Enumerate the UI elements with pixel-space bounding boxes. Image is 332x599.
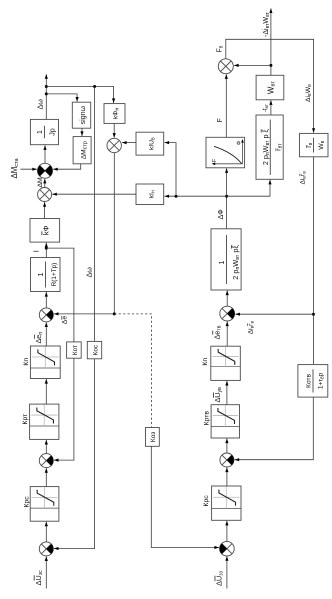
svg-text:kФн: kФн (112, 108, 120, 120)
wire to kIn kIUv (165, 141, 227, 198)
wire dM S4-S5 (43, 179, 46, 188)
svg-text:-ΔiвтWвт: -ΔiвтWвт (263, 11, 271, 37)
svg-text:1+τвp: 1+τвp (318, 372, 326, 389)
label dF (216, 209, 225, 220)
label -ivt (263, 103, 270, 112)
summing junction SL3 (220, 306, 235, 321)
wire Krs2-SL2 (225, 468, 228, 487)
block Kp2 (converter) (211, 346, 241, 380)
svg-text:2 pпWвт р ξ: 2 pпWвт р ξ (261, 128, 271, 165)
label div_rv 2 (300, 171, 308, 185)
wire kF-S4 (43, 202, 46, 218)
label Kp2 (202, 358, 209, 366)
svg-text:1: 1 (38, 272, 45, 276)
wire input dU_zz (225, 556, 228, 588)
label Krt (22, 414, 29, 425)
wire rv/Wv out (312, 157, 315, 364)
wire dashed to Koz (114, 314, 151, 427)
block 1/R(1+Tp) (armature circuit) (31, 258, 61, 292)
svg-text:Котв: Котв (306, 373, 313, 387)
wire Krs-S2 (45, 468, 48, 487)
block Koz (146, 428, 160, 447)
svg-text:F: F (217, 118, 224, 122)
block rv/Wv (300, 133, 329, 156)
wire dF line (225, 168, 228, 229)
block kFn (104, 104, 125, 124)
wire SL3-block2p (226, 291, 229, 307)
block Kotv/(1+tv p) (298, 365, 328, 398)
summing junction S5 (dM sum) (38, 163, 53, 178)
label Fv (217, 45, 225, 52)
svg-text:kIн: kIн (149, 190, 157, 198)
block Krt (torque regulator) (30, 404, 59, 439)
wire Kot feedback (46, 248, 74, 462)
label de_p (34, 332, 44, 344)
svg-text:R(1+Tp): R(1+Tp) (51, 263, 58, 287)
summing junction S4 (multiplier) (38, 188, 52, 202)
svg-text:Δω: Δω (84, 267, 93, 278)
svg-text:Ф: Ф (237, 141, 243, 145)
wire S6 output to S3 (54, 153, 116, 316)
svg-text:ΔМстр: ΔМстр (80, 141, 88, 159)
block Kp (converter) (30, 346, 60, 379)
label Krs2 (203, 495, 210, 507)
svg-text:F: F (212, 158, 218, 162)
svg-text:Крс: Крс (24, 496, 31, 508)
svg-text:Кот: Кот (72, 345, 79, 355)
block 1/(2pWvt p xi) (211, 229, 241, 290)
wire F to SFv (225, 74, 228, 137)
wire input dU_zs (45, 556, 48, 588)
block kF (flux gain) (30, 219, 60, 243)
label dMsta (10, 158, 20, 179)
block Kot (67, 342, 82, 358)
svg-text:Δe: Δe (62, 316, 69, 325)
summing junction SL2 (220, 453, 234, 467)
svg-text:Кос: Кос (93, 344, 100, 355)
wire Kp-S3 (de_p) (45, 322, 48, 346)
wire dMstr-S5 (53, 164, 81, 171)
block Kos (87, 341, 101, 358)
svg-text:Δω: Δω (36, 99, 45, 110)
block magnetization curve F(Phi) (206, 137, 245, 168)
svg-text:ΔМ: ΔМ (37, 177, 44, 188)
wire S5-Jp (43, 145, 46, 163)
label div Wv (305, 84, 313, 102)
block Krs2 (regulator) (212, 486, 241, 520)
wire fb to SFv (234, 64, 271, 67)
wire sign-dMstr (80, 128, 83, 136)
block kIn (136, 184, 164, 205)
label dU_zs (34, 570, 44, 586)
wire dMsta input (21, 168, 37, 171)
label dOmega fb (84, 267, 93, 278)
block dMstr (friction torque) (73, 137, 91, 164)
wire Koz-SL1 (151, 446, 219, 549)
svg-text:1: 1 (37, 130, 44, 134)
svg-text:Fв: Fв (217, 45, 225, 52)
wire Wvt out (269, 8, 272, 75)
wire Kp2-SL3 (de_tv) (226, 322, 229, 347)
svg-text:2 pпWвт pξ: 2 pпWвт pξ (231, 245, 241, 280)
label dU_uv (213, 387, 223, 403)
label dOmega out (36, 99, 45, 110)
wire SFv out to rv/Wv box (226, 39, 315, 133)
label Krs (24, 496, 31, 508)
summing junction S2 (39, 454, 53, 468)
wire kFn-S6 (113, 123, 116, 137)
block Krs (speed regulator) (30, 487, 59, 522)
wire to sign block (46, 94, 78, 102)
block 2pWvt p xi / rvt (256, 115, 284, 179)
wire kIUv-S6 (122, 141, 136, 144)
summing junction SL1 (220, 541, 235, 556)
wire SL2-Krtv (225, 439, 228, 454)
wire Krt-Kp (45, 379, 48, 404)
wire dOmega output (45, 74, 48, 119)
wire Kotv out to SL2 (235, 397, 314, 461)
svg-text:kIUв: kIUв (149, 137, 157, 150)
wire to big box (227, 180, 272, 196)
label I (32, 250, 41, 252)
label F bar (217, 118, 224, 122)
svg-text:Крс: Крс (203, 495, 210, 507)
label de (62, 316, 69, 325)
block kIUv (136, 132, 164, 155)
svg-text:Кп: Кп (202, 358, 209, 366)
svg-text:Коз: Коз (150, 432, 157, 442)
svg-text:signω: signω (80, 106, 87, 125)
summing junction S6 (multiplier) (107, 138, 121, 152)
label dU_zz (215, 570, 225, 586)
label div_rv near SL3 (247, 320, 255, 334)
label Krtv (204, 411, 211, 426)
svg-text:гвт: гвт (276, 143, 284, 151)
wire Kos feedback (54, 87, 95, 551)
wire Krtv-Kp2 (dU_uv) (225, 381, 228, 405)
wire bigbox-Wvt (269, 100, 272, 115)
wire I with junction (45, 243, 48, 258)
svg-text:Крт: Крт (22, 414, 29, 425)
wire S3-R (45, 292, 48, 308)
wire kIn-S4 (52, 193, 136, 196)
summing junction S1 (39, 542, 53, 556)
svg-text:гв: гв (306, 142, 314, 147)
wire S1-Krs (45, 522, 48, 542)
svg-text:Кртв: Кртв (204, 411, 211, 426)
svg-text:Кп: Кп (23, 358, 30, 366)
label Kp (23, 358, 30, 366)
label -divWvt (263, 11, 271, 37)
svg-text:I: I (32, 250, 41, 252)
svg-text:ΔФ: ΔФ (216, 209, 225, 220)
svg-text:1: 1 (219, 260, 226, 264)
block Krtv (regulator) (211, 405, 239, 438)
svg-text:ΔiвWв: ΔiвWв (305, 84, 313, 102)
block 1/Jp (inertia) (30, 119, 58, 144)
block sign omega (72, 102, 90, 128)
wire S2-Krt (45, 440, 48, 454)
summing junction S3 (39, 308, 53, 322)
wire to SL3 bottom (235, 313, 313, 316)
label dM (37, 177, 44, 188)
svg-text:Wв: Wв (318, 140, 326, 149)
label de_tv (212, 325, 222, 339)
block Wvt (256, 75, 284, 100)
svg-text:Jp: Jp (50, 128, 57, 136)
summing junction SFv (218, 59, 233, 74)
wire to kFn (46, 85, 115, 103)
wire SL1-Krs2 (225, 521, 228, 542)
svg-text:kФ: kФ (42, 225, 51, 235)
